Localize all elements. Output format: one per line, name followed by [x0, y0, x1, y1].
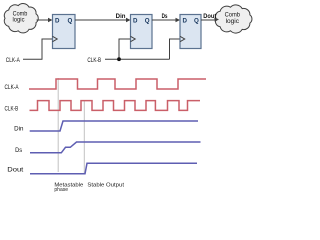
svg-text:D: D — [55, 18, 60, 25]
wire FF1 Q to FF2 D — [75, 19, 128, 21]
wire Dout waveform — [30, 163, 197, 174]
svg-text:CLK-A: CLK-A — [6, 57, 21, 64]
wire CLK-A to FF1 clock — [23, 39, 52, 59]
svg-text:Q: Q — [145, 18, 150, 25]
svg-text:CLK-A: CLK-A — [5, 84, 20, 91]
wire CLK-B to FF2 clock — [119, 39, 130, 59]
flip-flop U1 — [53, 15, 76, 49]
svg-text:Stable Output: Stable Output — [87, 182, 124, 188]
wire CLK-A waveform — [29, 79, 206, 89]
svg-text:logic: logic — [226, 18, 240, 25]
svg-text:Din: Din — [14, 125, 24, 132]
wire FF2 Q to FF3 D — [152, 19, 177, 21]
wire Ds waveform — [30, 142, 201, 153]
svg-text:Q: Q — [194, 18, 199, 25]
svg-text:Dout: Dout — [203, 14, 216, 20]
wire FF3 Q to cloud2 — [201, 19, 216, 21]
svg-text:D: D — [133, 18, 138, 25]
svg-text:Din: Din — [116, 14, 126, 20]
wire cloud1 to FF1 D — [37, 19, 50, 21]
svg-text:Dout: Dout — [7, 166, 23, 173]
wire CLK-B waveform — [30, 101, 201, 111]
svg-text:CLK-B: CLK-B — [5, 106, 19, 113]
flip-flop U2 — [131, 15, 153, 49]
svg-text:logic: logic — [13, 17, 26, 24]
svg-text:D: D — [183, 18, 188, 25]
svg-text:phase: phase — [54, 187, 68, 193]
wire CLK-B to FF3 clock — [170, 39, 180, 59]
svg-text:Q: Q — [68, 18, 73, 25]
cloud: left Comb logic — [4, 4, 38, 33]
wire CLK-B horizontal — [105, 58, 170, 60]
svg-text:Ds: Ds — [15, 147, 22, 154]
marker stable output start — [83, 101, 85, 174]
svg-text:CLK-B: CLK-B — [87, 57, 101, 64]
cloud: right Comb logic — [215, 5, 252, 33]
wire Din waveform — [30, 121, 198, 131]
flip-flop U3 — [180, 15, 201, 49]
marker metastable window start — [57, 78, 59, 172]
junction CLK-B — [117, 57, 121, 61]
svg-text:Ds: Ds — [162, 14, 168, 20]
